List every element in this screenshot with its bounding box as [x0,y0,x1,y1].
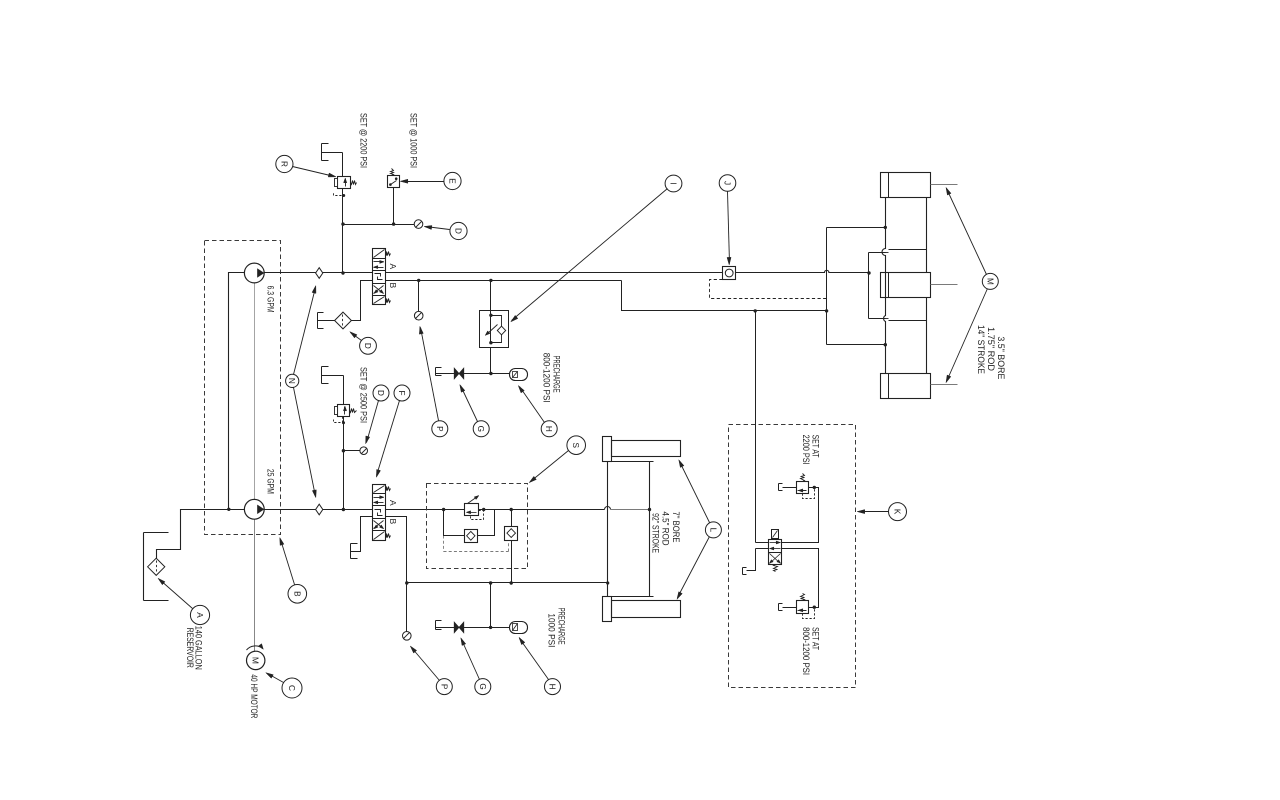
callout B pump group [288,585,307,604]
reservoir tank (140 gallon) [143,533,145,601]
check valve right in S-box [505,527,518,541]
wire to cylinder port 1 [827,227,886,229]
callout A strainer [190,605,209,624]
callout D filter [360,337,377,354]
svg-text:SET @ 2500 PSI: SET @ 2500 PSI [358,367,368,423]
cylinder piston line [611,509,650,511]
wire K valve supply stub [756,542,769,544]
node gauge branch [417,279,420,282]
node cylinder port 4 [884,343,887,346]
counterbalance valve in S-box [465,504,479,516]
svg-text:SET AT: SET AT [811,627,821,650]
wire relief 800-1200 inlet loop [782,549,819,608]
wire valve V2 port B to lower rail [386,517,407,583]
svg-text:P: P [439,684,448,690]
callout C motor [282,678,302,698]
svg-text:F: F [397,390,406,395]
wire pilot line from valve J (dashed) [710,280,827,299]
svg-text:1000 PSI: 1000 PSI [547,613,557,647]
node lower rail west end [405,581,408,584]
check valve N2 [316,504,323,515]
wire gauge drop circuit 2 [406,583,408,632]
svg-text:M: M [251,657,261,664]
flow control valve I with bypass check [480,311,509,348]
wire accumulator line 1 [436,373,510,375]
pressure gauge D (upper) [414,220,423,229]
callout M cylinder bank [982,273,998,289]
node pilot tap [482,508,485,511]
svg-text:4.5" ROD: 4.5" ROD [660,512,670,546]
tank symbol relief 2200 [778,484,780,491]
node lower rail check junction [510,581,513,584]
svg-text:3.5" BORE: 3.5" BORE [996,336,1006,379]
svg-text:D: D [363,343,372,349]
callout D gauge rail 2 [373,385,389,401]
tank symbol accumulator line 1 [435,368,437,376]
callout P gauge circuit 2 [436,679,452,695]
manifold dashed enclosure K [729,425,856,688]
wire relief R inlet from rail 1 [342,189,344,273]
cylinder L cap-end cap [603,597,612,622]
relief valve set at 800-1200 psi (K manifold) [797,601,809,614]
svg-text:K: K [893,509,902,515]
svg-text:PRECHARGE: PRECHARGE [552,356,562,393]
node rail1 / bracket junction [867,271,870,274]
motor M1 40 HP [247,651,265,669]
svg-text:D: D [376,390,385,396]
directional valve V2 4/3 solenoid [373,485,386,541]
wire relief 800-1200 to tank [783,607,797,609]
cylinder L barrel [607,462,609,597]
wire valve V1 tank drain [352,281,373,321]
svg-text:SET AT: SET AT [811,435,821,458]
tank symbol in K manifold [742,568,744,575]
svg-text:H: H [544,426,553,432]
wire to cylinder port 4 [827,344,886,346]
svg-text:D: D [454,228,463,234]
svg-text:800-1200 PSI: 800-1200 PSI [801,627,811,675]
return filter D [335,312,352,329]
directional valve V1 4/3 solenoid [373,249,386,305]
node relief 2200 pilot tap [813,486,816,489]
node gauge tap [342,449,345,452]
accumulator H precharge 1000 psi [510,622,528,634]
tank symbol for relief 2500 [321,367,323,384]
node check branch [510,508,513,511]
wire suction line strainer to pump P2 [157,510,245,559]
accumulator H precharge 800-1200 psi [510,369,528,381]
callout P gauge circuit 1 [432,421,448,437]
tank symbol relief 800-1200 [778,604,780,611]
svg-text:A: A [388,500,398,506]
relief valve R set 2200 psi [338,177,351,189]
wire relief R outlet to tank [322,152,343,154]
svg-text:P: P [435,426,444,432]
pump P2 25 GPM [244,499,264,519]
svg-text:L: L [708,528,717,533]
wire flow control to accumulator line 1 [490,348,492,374]
callout D gauge upper [450,222,467,239]
callout F valve V2 [394,385,410,401]
relief valve set 2500 psi [338,405,350,417]
svg-text:E: E [448,178,457,184]
callout G needle valve 1 [473,421,489,437]
cylinder bank M 3.5in bore end caps and piston [881,173,931,198]
wire valve V1 port B line [386,280,622,282]
pressure gauge P (circuit 1) [414,311,423,320]
wire relief 2500 inlet from rail 2 [343,417,345,510]
wire rail 1 valve V1 port A to cylinder feed [386,272,723,274]
wire rail 1 to valve V1 [323,272,373,274]
node B line end [825,309,828,312]
wire check to lower rail [511,541,513,583]
pressure gauge P (circuit 2) [403,632,412,641]
needle valve G (circuit 2) [454,622,459,633]
needle valve G (circuit 1) [454,368,459,379]
wire accumulator line 2 [436,627,510,629]
svg-text:N: N [287,378,296,384]
svg-text:J: J [723,181,732,185]
wire B line to cylinder manifold [622,281,827,311]
wire rail 2 to valve V2 [323,509,373,511]
node switch E tap [392,222,395,225]
callout G needle valve 2 [475,679,491,695]
svg-text:M: M [985,278,994,285]
node sense line tap [341,222,344,225]
svg-text:40 HP MOTOR: 40 HP MOTOR [249,674,259,718]
node cylinder port 1 [884,226,887,229]
svg-text:2200 PSI: 2200 PSI [801,435,811,465]
tank symbol at filter D [317,313,319,329]
wire drop to accumulator line 2 [490,583,492,628]
wire drive shaft P1-P2-motor [254,283,256,500]
pressure gauge D (rail 2) [360,447,368,455]
check valve N1 [316,268,323,279]
svg-text:G: G [476,426,485,432]
svg-text:25 GPM: 25 GPM [266,469,276,494]
node bypass branch [442,508,445,511]
pump P1 6.3 GPM [244,263,264,283]
wire switch E drop [393,188,395,225]
node piston-rod junction [648,508,651,511]
wire lower rail to cylinder cap end [407,582,608,584]
node accumulator line 2 junction [489,626,492,629]
svg-text:PRECHARGE: PRECHARGE [556,608,566,645]
svg-text:A: A [388,264,398,270]
svg-text:G: G [478,683,487,689]
wire relief 2200 inlet loop [782,488,819,543]
check valve in S-box bypass [465,530,478,543]
wire pressure rail 2 from pump P2 [265,509,316,511]
svg-text:B: B [388,519,398,525]
svg-text:H: H [548,684,557,690]
callout S counterbalance assembly [567,436,586,455]
wire right check valve branch [511,510,513,527]
wire relief 2500 outlet to tank [322,375,344,377]
pressure switch E set 1000 psi [388,176,400,188]
callout N check valves [286,374,299,387]
wire gauge drop [418,281,420,312]
tank symbol for relief R [321,144,323,161]
relief valve set at 2200 psi (K manifold) [797,482,809,494]
node accumulator line 1 junction [489,372,492,375]
wire relief 2200 to tank [783,487,797,489]
callout J pilot check [719,175,736,192]
tank symbol accumulator line 2 [435,621,437,630]
tank symbol at valve V2 drain [350,544,352,559]
cylinder bank M rod stubs [931,184,958,186]
suction strainer A [148,558,165,575]
wire valve V2 tank drain [351,517,373,552]
wire pressure sense line [343,224,415,226]
wire rail 2 through S-box to cylinder [427,509,605,511]
svg-text:6.3 GPM: 6.3 GPM [266,286,276,313]
cylinder L 7in bore rod-end cap [603,437,612,462]
svg-text:I: I [669,182,678,184]
wire hop over cylinder wall [605,507,611,510]
wire cylinder bank outer-port manifold [826,228,828,345]
callout I flow control [665,175,682,192]
callout L cylinder 7in [705,522,721,538]
pilot-operated check valve J [723,267,736,280]
callout K manifold [889,503,907,521]
node flow-control branch [489,279,492,282]
node rail 2 tap [342,508,345,511]
svg-text:800-1200 PSI: 800-1200 PSI [542,353,552,403]
wire gauge stub [344,450,360,452]
callout E pressure switch [444,172,461,189]
svg-text:C: C [287,685,296,691]
svg-text:S: S [571,442,580,448]
svg-text:A: A [195,612,204,618]
wire bypass loop [444,510,465,536]
wire rail 2 valve V2 port A to S-box [386,509,427,511]
svg-text:1.75" ROD: 1.75" ROD [986,327,996,371]
cylinder bank M barrel walls [882,198,886,374]
wire suction branch to pump P1 [229,273,245,510]
wire flow control feed [490,281,492,311]
node cylinder port [606,581,609,584]
selector valve in K manifold 4/2 solenoid [769,540,782,565]
svg-text:RESERVOIR: RESERVOIR [185,628,195,668]
svg-text:SET @ 1000 PSI: SET @ 1000 PSI [409,113,419,168]
callout H accumulator 1 [541,421,557,437]
wire rail 1 with crossover hop to cylinder bracket [736,270,869,272]
wire inner-port bracket [868,253,870,319]
node relief 800-1200 pilot tap [813,606,816,609]
node K-box branch [754,309,757,312]
svg-text:B: B [388,283,398,289]
wire filter to tank [318,320,335,322]
wire supply drop into K manifold [755,311,757,543]
node accumulator line 2 branch [489,581,492,584]
callout R relief valve [276,155,293,172]
svg-text:14" STROKE: 14" STROKE [976,325,986,374]
svg-text:92" STROKE: 92" STROKE [651,513,661,553]
svg-text:B: B [292,591,301,597]
svg-text:7" BORE: 7" BORE [671,512,681,543]
svg-text:SET @ 2200 PSI: SET @ 2200 PSI [359,113,369,168]
counterbalance assembly dashed enclosure S [427,484,528,569]
node rail1/relief-R tap [341,271,344,274]
svg-text:R: R [279,161,288,167]
pump group dashed enclosure B [205,241,281,535]
wire pressure rail 1 from pump P1 [265,272,316,274]
wire K valve tank drain [756,548,769,550]
callout H accumulator 2 [545,679,561,695]
